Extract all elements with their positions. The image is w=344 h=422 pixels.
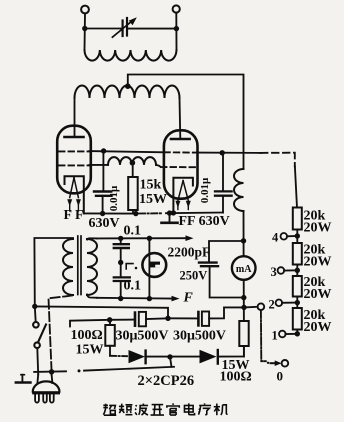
wire dash-dot segment bbox=[139, 212, 163, 214]
wire dash-dot to terminal 0 bbox=[261, 310, 266, 361]
variable capacitor C1 plates bbox=[121, 21, 123, 37]
char ji bbox=[214, 404, 228, 416]
resistor R1 15k 15W lead bbox=[132, 163, 134, 177]
right tube V2 envelope bbox=[164, 130, 198, 198]
node bbox=[167, 354, 172, 359]
V2 cathode bbox=[173, 178, 193, 213]
svg-text:4: 4 bbox=[272, 231, 279, 245]
svg-text:0.01μ: 0.01μ bbox=[199, 177, 211, 203]
node choke tap bbox=[130, 160, 136, 166]
node bbox=[118, 296, 123, 301]
rail B wire bbox=[97, 297, 173, 300]
svg-text:20W: 20W bbox=[304, 320, 332, 335]
terminal electrode right bbox=[173, 5, 180, 12]
wire bbox=[110, 319, 134, 321]
svg-text:0.1: 0.1 bbox=[124, 279, 142, 294]
svg-text:250V: 250V bbox=[180, 269, 208, 283]
wire C4 bottom bbox=[222, 196, 224, 213]
wire bbox=[287, 235, 297, 237]
terminal 2 bbox=[276, 300, 283, 307]
node bbox=[241, 305, 246, 310]
svg-text:F F: F F bbox=[64, 208, 84, 223]
svg-text:20W: 20W bbox=[304, 221, 332, 236]
svg-text:0.1: 0.1 bbox=[124, 224, 142, 239]
capacitor C8 30u500V electrolytic bbox=[197, 312, 200, 325]
lamp DS1 bbox=[148, 238, 150, 298]
diode D1 bbox=[129, 350, 146, 363]
svg-text:30μ500V: 30μ500V bbox=[116, 329, 169, 344]
capacitor C7 30u500V electrolytic bbox=[134, 313, 137, 326]
RF choke L3 vertical bbox=[234, 169, 244, 211]
wire G1 right bbox=[197, 152, 261, 154]
terminal unnumbered bbox=[258, 303, 265, 310]
wire bbox=[243, 346, 245, 357]
wire plate lead left bbox=[74, 98, 76, 137]
wire T1 primary top bbox=[34, 238, 73, 306]
ground chassis bbox=[169, 213, 171, 222]
wire to choke bbox=[90, 164, 109, 166]
node bbox=[118, 236, 123, 241]
wire bbox=[296, 230, 298, 244]
wire bbox=[84, 13, 87, 50]
node ground junction bbox=[167, 210, 172, 215]
node tap 2 bbox=[295, 300, 300, 305]
terminal 1 bbox=[279, 331, 286, 338]
wire G1 bbox=[90, 151, 165, 152]
resistor R9 20k 20W bbox=[293, 308, 302, 330]
wire T1 secondary top bbox=[87, 238, 97, 239]
svg-text:15W: 15W bbox=[139, 192, 167, 207]
wire bbox=[147, 356, 200, 358]
svg-text:20W: 20W bbox=[304, 287, 332, 302]
svg-text:1: 1 bbox=[272, 329, 278, 343]
left tube V1 envelope bbox=[57, 126, 91, 194]
wire bbox=[296, 265, 298, 277]
capacitor C3 0.01u left plates bbox=[94, 190, 111, 192]
node tap 3 bbox=[295, 268, 300, 273]
wire bbox=[132, 210, 134, 214]
node bbox=[165, 316, 170, 321]
svg-text:0: 0 bbox=[277, 369, 284, 384]
wire bbox=[120, 281, 122, 299]
grid line G1 right tube dashes bbox=[164, 151, 196, 153]
node resistor top bbox=[107, 317, 112, 322]
char duan bbox=[119, 404, 132, 415]
wire bbox=[243, 280, 245, 321]
V2 plate bbox=[171, 138, 190, 141]
grid line G2 left tube dashes bbox=[59, 164, 89, 166]
arrow to 0 bbox=[271, 362, 278, 364]
wire choke to right grid bbox=[156, 165, 161, 167]
wire to bottom rail bbox=[170, 357, 172, 367]
wire T1 secondary bottom bbox=[87, 295, 97, 298]
rail A wire bbox=[97, 237, 187, 239]
bottom rail wire bbox=[34, 370, 66, 373]
wire bbox=[243, 211, 245, 256]
svg-text:20W: 20W bbox=[304, 255, 332, 270]
V2 filament bbox=[178, 181, 183, 201]
diode D2 bbox=[200, 350, 217, 364]
wire bbox=[282, 302, 297, 304]
node bbox=[171, 210, 176, 215]
char liao bbox=[198, 403, 211, 414]
terminal 3 bbox=[278, 267, 285, 274]
svg-text:0.01μ: 0.01μ bbox=[108, 185, 120, 211]
wire dash-dot bbox=[110, 355, 127, 357]
wire bbox=[285, 333, 297, 335]
node tap 4 bbox=[295, 233, 300, 238]
wire T1 primary bottom dashed bbox=[49, 296, 73, 372]
svg-text:2×2CP26: 2×2CP26 bbox=[138, 373, 195, 389]
node grid cap right bbox=[220, 150, 225, 155]
wire divider top bbox=[295, 167, 297, 208]
resistor R6 20k 20W bbox=[293, 208, 302, 230]
svg-text:630V: 630V bbox=[89, 216, 120, 231]
node bbox=[32, 304, 37, 309]
resistor R1 15k body bbox=[128, 177, 138, 210]
meter mA M1 bbox=[232, 256, 256, 280]
wire bbox=[296, 297, 298, 309]
plug P1 bbox=[51, 372, 53, 375]
wire C4 top bbox=[222, 153, 224, 192]
svg-text:30μ500V: 30μ500V bbox=[173, 329, 226, 344]
svg-text:3: 3 bbox=[271, 265, 277, 279]
V1 filament bbox=[70, 178, 74, 198]
node junction right top bbox=[174, 26, 179, 31]
char wu bbox=[151, 405, 164, 415]
mark small hook bbox=[126, 264, 133, 269]
variable capacitor C1 arrow bbox=[112, 21, 132, 37]
V1 plate bbox=[65, 136, 84, 139]
capacitor C4 0.01u right plates bbox=[215, 190, 232, 192]
wire bbox=[120, 238, 122, 244]
choke L4 between tubes bbox=[108, 157, 156, 165]
node grid cap left bbox=[101, 148, 106, 153]
transformer T1 secondary bbox=[87, 239, 97, 295]
tank coil L1 bbox=[85, 50, 177, 61]
svg-text:100Ω: 100Ω bbox=[220, 370, 252, 385]
capacitor C2 plates bbox=[199, 261, 217, 263]
wire C2 bottom bbox=[210, 266, 244, 297]
svg-text:100Ω: 100Ω bbox=[71, 328, 103, 343]
char guan bbox=[167, 403, 179, 415]
wire C3 top bbox=[102, 151, 104, 191]
node junction left top bbox=[82, 26, 87, 31]
caption title strokes bbox=[103, 403, 227, 415]
wire bbox=[296, 330, 298, 334]
rail C wire top bbox=[35, 306, 168, 318]
T1 core bbox=[77, 236, 79, 295]
transformer T1 primary bbox=[63, 239, 73, 295]
ground chassis left bbox=[21, 374, 25, 376]
resistor R7 20k 20W bbox=[293, 243, 302, 265]
node bbox=[241, 238, 246, 243]
node L2 center tap bbox=[125, 83, 131, 89]
node tap 1 bbox=[295, 331, 300, 336]
wire plate lead right bbox=[179, 98, 182, 139]
svg-text:mA: mA bbox=[236, 264, 252, 275]
wire bbox=[85, 28, 121, 30]
wire bbox=[166, 212, 223, 215]
wire bbox=[168, 317, 197, 319]
capacitor C5 0.1 upper plates bbox=[114, 243, 129, 245]
wire bbox=[284, 269, 297, 271]
cap line stub bbox=[70, 320, 110, 327]
wire bbox=[219, 346, 244, 357]
node bbox=[147, 296, 152, 301]
V1 cathode bbox=[65, 176, 84, 213]
char bo bbox=[135, 404, 148, 416]
cathode line wire bbox=[84, 212, 137, 214]
terminal 0 bbox=[282, 360, 289, 367]
svg-text:2200pF: 2200pF bbox=[168, 245, 211, 260]
wire B+ from tap bbox=[128, 75, 244, 170]
wire bbox=[209, 307, 244, 318]
svg-text:F: F bbox=[183, 291, 194, 306]
wire bbox=[146, 317, 168, 320]
node bbox=[241, 295, 246, 300]
svg-text:2: 2 bbox=[269, 298, 275, 312]
terminal electrode left bbox=[81, 6, 89, 14]
plate coil L2 bbox=[75, 85, 180, 98]
char chao bbox=[103, 404, 116, 416]
node bbox=[147, 236, 152, 241]
node bbox=[49, 369, 54, 374]
wire bbox=[109, 320, 111, 325]
wire to terminal bbox=[244, 306, 258, 309]
wire bbox=[175, 13, 177, 50]
capacitor C6 0.1 lower plates bbox=[114, 276, 130, 278]
char dian bbox=[184, 403, 194, 414]
node bbox=[133, 211, 138, 216]
node bbox=[100, 211, 105, 216]
resistor R5 15W 100ohm body bbox=[239, 321, 248, 346]
resistor R2 100ohm 15W body bbox=[105, 325, 115, 346]
svg-text:15k: 15k bbox=[140, 178, 162, 193]
grid line G1 left tube dashes bbox=[59, 150, 89, 152]
node mid caps bbox=[118, 260, 123, 265]
wire dashed to divider bbox=[261, 153, 295, 167]
capacitor C2 2200pF top wire bbox=[209, 241, 244, 262]
svg-text:15W: 15W bbox=[76, 343, 104, 358]
wire C3 bottom bbox=[102, 196, 104, 214]
switch S1 bbox=[34, 306, 37, 322]
resistor R8 20k 20W bbox=[293, 276, 302, 297]
terminal 4 bbox=[281, 233, 288, 240]
svg-text:FF 630V: FF 630V bbox=[179, 214, 230, 229]
wire bbox=[129, 28, 177, 30]
